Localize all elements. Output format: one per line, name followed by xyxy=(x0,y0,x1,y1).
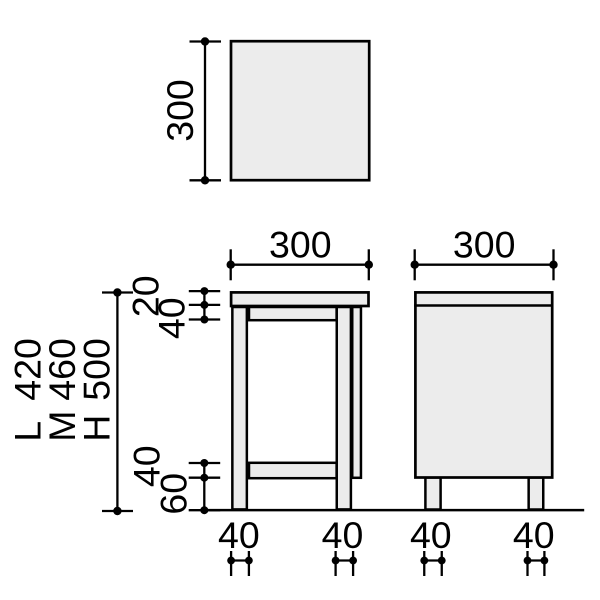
side view dimension dots xyxy=(411,261,558,269)
side view dimension label 300 xyxy=(453,223,516,265)
svg-text:H: H xyxy=(76,415,118,442)
main height dimension dots xyxy=(113,288,121,515)
upper small dimension lines 20 and 40 xyxy=(189,291,220,319)
lower small dimension label 40 xyxy=(126,445,168,487)
front view dimension line 300 xyxy=(231,249,369,280)
svg-text:60: 60 xyxy=(152,473,194,515)
svg-text:40: 40 xyxy=(513,514,555,556)
main height dimension label H 500 xyxy=(76,338,118,442)
front view lower stretcher rail xyxy=(249,463,337,478)
front view dimension label 300 xyxy=(269,223,332,265)
svg-text:40: 40 xyxy=(151,297,193,339)
leg width dimension front left 40 xyxy=(218,514,260,576)
side view left leg xyxy=(425,478,440,510)
svg-text:40: 40 xyxy=(410,514,452,556)
front view upper apron rail xyxy=(249,307,337,320)
lower small dimension dots xyxy=(200,459,208,514)
upper small dimension label 40 xyxy=(151,297,193,339)
top view vertical dimension line 300 xyxy=(190,42,222,181)
side view seat bottom line xyxy=(414,304,553,307)
leg width dimension front right 40 xyxy=(322,514,364,576)
main height dimension label M 460 xyxy=(41,338,83,442)
upper small dimension dots xyxy=(200,287,208,323)
floor line xyxy=(204,509,584,512)
svg-text:40: 40 xyxy=(322,514,364,556)
side view right leg xyxy=(529,478,544,510)
upper small dimension label 20 xyxy=(125,275,167,317)
lower small dimension label 60 xyxy=(152,473,194,515)
front view seat slab xyxy=(231,292,368,306)
front view right leg xyxy=(337,307,351,509)
top view dimension label 300 xyxy=(159,79,201,142)
top view seat panel 300x300 xyxy=(231,41,369,180)
svg-text:300: 300 xyxy=(159,79,201,142)
leg width dimension side left 40 xyxy=(410,514,452,576)
svg-text:300: 300 xyxy=(269,223,332,265)
front view left leg xyxy=(232,307,247,509)
leg width dimension side right 40 xyxy=(513,514,555,576)
main height dimension label L 420 xyxy=(7,338,49,442)
lower small dimension lines 40 and 60 xyxy=(189,463,221,510)
front view side apron strip xyxy=(352,307,361,478)
side view body panel xyxy=(415,292,552,477)
main height dimension line xyxy=(102,293,133,512)
top view dimension dots xyxy=(201,37,209,184)
side view dimension line 300 xyxy=(415,249,554,280)
svg-text:300: 300 xyxy=(453,223,516,265)
svg-text:40: 40 xyxy=(218,514,260,556)
svg-text:500: 500 xyxy=(76,338,118,401)
front view dimension dots xyxy=(227,261,373,269)
